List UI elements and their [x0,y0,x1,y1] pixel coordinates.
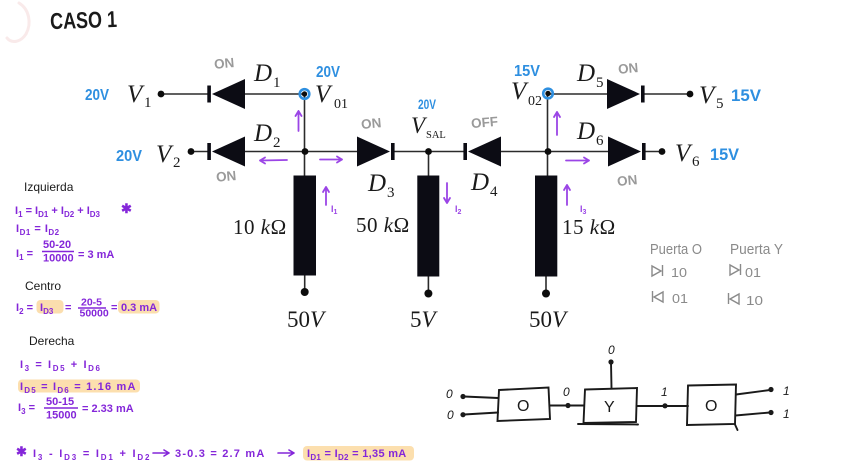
svg-text:2: 2 [173,155,181,171]
svg-text:D: D [470,169,489,196]
svg-text:I3 = ID5 + ID6: I3 = ID5 + ID6 [20,359,102,373]
svg-text:= 2.33 mA: = 2.33 mA [82,403,134,415]
svg-text:V: V [127,81,145,108]
svg-text:=: = [65,302,71,314]
svg-text:0: 0 [563,385,570,399]
svg-text:D: D [253,120,272,147]
svg-text:V: V [511,78,529,105]
svg-text:SAL: SAL [426,130,446,141]
svg-text:3-0.3 = 2.7 mA: 3-0.3 = 2.7 mA [175,448,265,460]
svg-text:O: O [517,398,529,415]
svg-text:CASO 1: CASO 1 [50,6,118,34]
svg-text:1: 1 [661,385,668,399]
svg-text:Y: Y [604,399,615,416]
svg-text:Puerta O: Puerta O [650,242,702,258]
svg-text:10000: 10000 [43,253,74,265]
svg-text:ID1 = ID2: ID1 = ID2 [16,223,60,237]
svg-text:ON: ON [360,115,381,132]
svg-text:5: 5 [596,75,604,91]
svg-text:15000: 15000 [46,410,77,422]
svg-text:I1: I1 [331,204,338,216]
svg-text:0: 0 [608,343,615,357]
svg-text:4: 4 [490,184,498,200]
svg-text:I3 =: I3 = [18,402,35,416]
svg-text:D: D [367,170,386,197]
svg-text:50 kΩ: 50 kΩ [356,213,410,237]
svg-text:ID1 = ID2 = 1,35 mA: ID1 = ID2 = 1,35 mA [307,448,407,462]
svg-text:1: 1 [144,95,152,111]
svg-text:= 3 mA: = 3 mA [78,249,114,261]
svg-text:Centro: Centro [25,279,61,293]
svg-text:I2: I2 [455,204,462,216]
svg-text:O: O [705,398,717,415]
svg-text:✱: ✱ [16,444,27,459]
svg-text:20V: 20V [116,148,142,165]
svg-text:D: D [576,60,595,87]
svg-text:10: 10 [746,293,763,308]
svg-text:50V: 50V [287,307,327,332]
svg-text:ID5 = ID6 = 1.16 mA: ID5 = ID6 = 1.16 mA [20,381,137,395]
svg-text:50-15: 50-15 [46,396,74,408]
svg-text:1: 1 [783,384,790,398]
svg-text:6: 6 [692,154,700,170]
svg-text:V: V [156,141,174,168]
svg-text:Puerta Y: Puerta Y [730,242,783,258]
svg-text:5: 5 [716,96,724,112]
svg-text:01: 01 [334,97,348,112]
svg-text:V: V [699,82,717,109]
svg-text:50-20: 50-20 [43,239,71,251]
svg-text:Izquierda: Izquierda [24,180,74,194]
svg-text:50V: 50V [529,307,569,332]
svg-text:10 kΩ: 10 kΩ [233,215,287,239]
svg-text:15V: 15V [710,145,740,164]
svg-text:I1 = ID1 + ID2 + ID3: I1 = ID1 + ID2 + ID3 [15,205,101,219]
svg-text:ON: ON [616,172,637,189]
svg-text:01: 01 [672,291,688,306]
svg-text:✱: ✱ [121,201,132,216]
svg-text:0: 0 [447,408,454,422]
svg-text:D: D [576,118,595,145]
svg-text:Derecha: Derecha [29,334,75,348]
svg-text:15 kΩ: 15 kΩ [562,215,616,239]
svg-text:0.3 mA: 0.3 mA [121,302,157,314]
svg-text:V: V [315,81,333,108]
svg-text:50000: 50000 [80,308,109,320]
svg-text:02: 02 [528,94,542,109]
svg-text:20V: 20V [316,64,340,81]
svg-text:I1 =: I1 = [16,248,33,262]
svg-text:ON: ON [617,60,638,77]
svg-text:=: = [111,302,117,314]
svg-text:2: 2 [273,135,281,151]
svg-text:15V: 15V [514,63,540,80]
svg-text:1: 1 [273,75,281,91]
svg-text:I3 - ID3 = ID1 + ID2: I3 - ID3 = ID1 + ID2 [33,448,151,462]
svg-text:20V: 20V [85,87,109,104]
svg-text:I2 =: I2 = [16,302,33,316]
svg-text:01: 01 [745,265,761,280]
svg-text:6: 6 [596,133,604,149]
svg-text:ON: ON [215,168,236,185]
svg-text:V: V [675,140,693,167]
svg-text:1: 1 [783,407,790,421]
svg-text:20V: 20V [418,96,436,112]
svg-text:3: 3 [387,185,395,201]
svg-text:OFF: OFF [470,114,498,131]
svg-text:10: 10 [671,265,687,280]
svg-text:15V: 15V [731,86,762,105]
svg-text:D: D [253,60,272,87]
svg-text:5V: 5V [410,307,439,332]
svg-text:0: 0 [446,387,453,401]
svg-text:ON: ON [213,55,234,72]
